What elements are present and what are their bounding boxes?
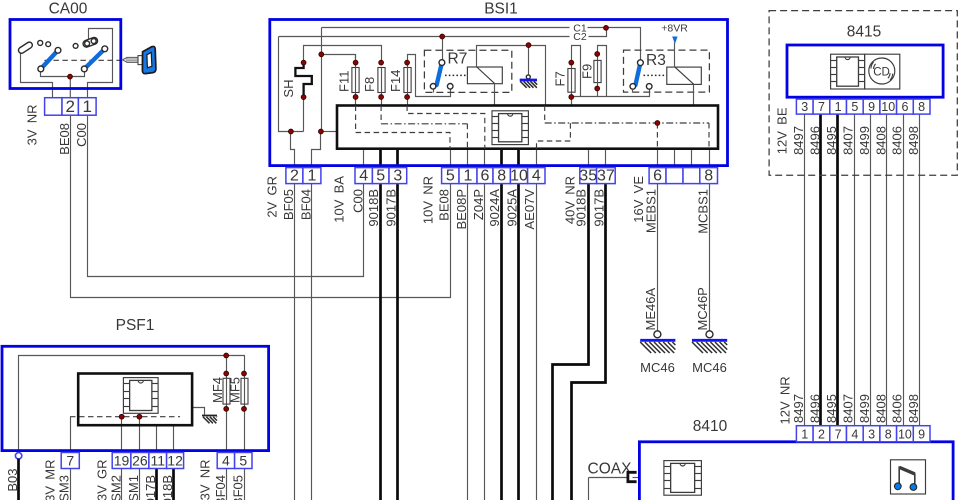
wire 8496 (8415 to 8410) — [819, 115, 822, 426]
wire BE08P (BSI1 pin1 down) — [467, 149, 469, 500]
junction MF4 tap — [224, 353, 229, 358]
CA00 key dashed axis line — [44, 59, 122, 61]
wire 8498 (8415 to 8410) — [919, 115, 921, 426]
svg-text:5: 5 — [851, 100, 858, 114]
svg-text:R7: R7 — [448, 51, 468, 68]
wire PSF1 pin7 feed — [70, 417, 72, 453]
svg-text:C2: C2 — [573, 31, 587, 43]
junction F8 top — [379, 60, 384, 65]
junction PSF1 bus pin26 — [137, 414, 142, 419]
CA00 contact circle c — [73, 44, 78, 49]
junction F9 top — [595, 52, 600, 57]
svg-text:8497: 8497 — [791, 394, 806, 423]
svg-text:10V NR: 10V NR — [421, 176, 436, 224]
svg-text:8407: 8407 — [840, 394, 855, 423]
CA00 contact circle a — [38, 40, 43, 45]
wire BF04 below PSF1 — [226, 469, 228, 500]
wire F7 bottom to module — [571, 97, 573, 106]
ground hatching inside BSI1 — [520, 81, 537, 88]
fuse MF4 — [223, 378, 230, 404]
internal dash-dot bus (right half) — [544, 106, 546, 124]
wire 9017B (BSI1 pin3 down) — [396, 149, 399, 500]
junction SH top — [301, 60, 306, 65]
junction MF4 top — [224, 371, 229, 376]
wire 9018B below PSF1 — [172, 469, 175, 500]
wire MF4 feed — [226, 356, 228, 379]
svg-text:F11: F11 — [337, 71, 352, 92]
wire 8407 (8415 to 8410) — [854, 115, 856, 426]
CA00 pin row (empty,2,1) — [45, 97, 97, 116]
8415 dashed outline box — [769, 11, 957, 176]
svg-text:1: 1 — [464, 167, 473, 184]
svg-text:8410: 8410 — [693, 418, 728, 435]
svg-text:8496: 8496 — [807, 126, 822, 155]
relay R3 dashed box — [624, 50, 710, 92]
svg-text:9024A: 9024A — [487, 189, 502, 227]
svg-text:4: 4 — [222, 452, 230, 468]
wire R7 NC contact stub — [433, 90, 435, 93]
svg-text:MC46P: MC46P — [695, 287, 710, 330]
svg-text:11: 11 — [150, 452, 165, 468]
svg-text:8406: 8406 — [890, 394, 905, 423]
CA00 internal wire (contact to empty pin) — [21, 53, 53, 98]
junction C1 node — [604, 26, 609, 31]
IC chip symbol inside 8415 — [831, 54, 865, 89]
svg-text:BSI1: BSI1 — [484, 1, 518, 18]
BSI1 pin row group5 (6,_,_,8) — [649, 167, 717, 184]
wire BE08 stub (BSI1 pin5) — [450, 149, 452, 184]
wire stub BSI1 empty pin a — [674, 149, 676, 184]
wire BE08 (CA00 pin2 to BSI1 pin5) — [71, 116, 451, 298]
wire PSF1 supply rail — [19, 356, 245, 453]
svg-text:3V MR: 3V MR — [43, 460, 58, 500]
wire F9 top stub — [597, 55, 599, 61]
wire junction to inner module — [321, 131, 337, 133]
wire 9024A (BSI1 pin8 down) — [500, 149, 503, 500]
svg-text:5: 5 — [376, 167, 385, 184]
junction internal bus MEBS1 — [655, 121, 660, 126]
svg-text:10V BA: 10V BA — [332, 176, 347, 223]
fuse F14 — [404, 68, 411, 93]
svg-text:C00: C00 — [74, 123, 89, 147]
svg-text:12V BE: 12V BE — [775, 107, 790, 154]
junction SH bottom — [301, 95, 306, 100]
wire C00 stub (BSI1 pin4) — [363, 149, 365, 168]
svg-text:BF04: BF04 — [298, 189, 313, 220]
wire R3 NC contact stub — [632, 90, 634, 93]
junction PSF1 bus pin19 — [119, 414, 124, 419]
ground symbol inside PSF1 — [202, 415, 217, 417]
svg-text:+8VR: +8VR — [661, 22, 688, 34]
svg-text:F7: F7 — [553, 71, 568, 86]
svg-text:8: 8 — [704, 167, 713, 184]
shunt SH — [295, 63, 311, 98]
svg-text:8498: 8498 — [906, 394, 921, 423]
wire internal ground drop (BSI1) — [528, 46, 530, 75]
internal dashed path (F14 to pin6 Z04P) — [407, 106, 485, 149]
wire BSI1 pin2 feed — [291, 132, 295, 169]
CA00 internal wire (right contact loop to pin 1) — [88, 29, 113, 98]
svg-text:1: 1 — [801, 428, 808, 442]
svg-text:8415: 8415 — [847, 24, 881, 41]
svg-text:CD: CD — [873, 67, 890, 79]
loudspeaker music-note symbol — [891, 460, 926, 494]
wire PSF1 pin19 feed — [121, 417, 123, 453]
wire 8499 (8415 to 8410) — [870, 115, 872, 426]
ground MC46 right hatching — [692, 342, 727, 353]
svg-text:7: 7 — [835, 428, 842, 442]
svg-text:9: 9 — [868, 100, 875, 114]
ground hatching inside PSF1 — [203, 417, 217, 424]
junction BF04 tap — [319, 129, 324, 134]
svg-text:6: 6 — [901, 100, 908, 114]
wire 9025A (BSI1 pin10 down) — [517, 149, 520, 500]
wire 9017B stub (BSI1 pin37) — [605, 149, 607, 169]
relay R3 switch lever — [630, 60, 652, 89]
component 8415 (radio head unit) group — [769, 11, 957, 176]
svg-text:B03: B03 — [5, 469, 20, 492]
CA00 contact circle b — [46, 42, 51, 47]
svg-text:8408: 8408 — [873, 126, 888, 155]
wire C1 to F11 top — [322, 55, 356, 63]
wire Z04P (BSI1 pin6 down) — [484, 149, 486, 500]
wire 9018B (BSI1 pin5 down) — [379, 149, 382, 500]
wire MF4 output to pin 4 — [226, 405, 228, 453]
wire 8497 (8415 to 8410) — [804, 115, 806, 426]
wire R3 coil output — [693, 85, 695, 106]
svg-text:12: 12 — [167, 452, 183, 468]
BSI1 blue outline box — [270, 20, 728, 166]
wire F11 bottom to module — [355, 93, 357, 106]
svg-text:8497: 8497 — [791, 126, 806, 155]
8410 blue outline box — [639, 442, 953, 500]
coax connector symbol — [628, 472, 637, 481]
svg-text:9018B: 9018B — [160, 475, 175, 500]
wire 9018B (BSI1 pin35 staircase down) — [553, 169, 589, 500]
PSF1 pin row (4,5) — [217, 452, 252, 468]
IC chip symbol inside BSI1 — [492, 111, 528, 145]
svg-text:ME46A: ME46A — [643, 288, 658, 331]
IC chip symbol inside PSF1 — [123, 378, 158, 414]
IC chip symbol inside 8410 — [664, 461, 702, 496]
wire F7 staple — [572, 46, 581, 97]
svg-text:6: 6 — [481, 167, 490, 184]
svg-text:6: 6 — [653, 167, 662, 184]
CD player symbol — [865, 54, 900, 89]
relay R7 coil — [467, 67, 502, 84]
wire AE07V (BSI1 pin4 down) — [536, 149, 538, 500]
BSI1 internal module box — [337, 106, 718, 149]
wire F14 bottom to module — [407, 93, 409, 106]
wire 8406 (8415 to 8410) — [903, 115, 905, 426]
wire F7 body stubs — [571, 63, 573, 69]
svg-text:3: 3 — [868, 428, 875, 442]
svg-text:MC46: MC46 — [692, 360, 727, 375]
svg-text:19: 19 — [114, 452, 130, 468]
wire 9018B stub (BSI1 pin35) — [588, 149, 590, 169]
junction CA00 lever common — [68, 74, 73, 79]
PSF1 blue outline box — [2, 346, 269, 450]
BSI1 pin row group1 (2,1) — [286, 167, 321, 184]
fuse MF5 — [241, 378, 248, 404]
svg-text:SH: SH — [281, 80, 296, 98]
svg-text:8: 8 — [885, 428, 892, 442]
wire F7 bottom to rail — [571, 93, 573, 97]
svg-text:C00: C00 — [350, 189, 365, 213]
svg-text:AE07V: AE07V — [522, 189, 537, 230]
wire MF5 output to pin 5 — [244, 405, 246, 453]
relay R7 switch lever — [430, 60, 453, 89]
svg-text:BE08: BE08 — [57, 123, 72, 155]
svg-text:BF05: BF05 — [231, 475, 246, 500]
wire coax drop — [588, 478, 590, 500]
svg-text:CA00: CA00 — [49, 1, 88, 18]
svg-text:PSF1: PSF1 — [116, 317, 155, 334]
svg-text:8407: 8407 — [840, 126, 855, 155]
svg-text:MF4: MF4 — [210, 377, 225, 403]
svg-text:2V GR: 2V GR — [265, 176, 280, 218]
component CA00 (ignition switch) group — [10, 1, 156, 155]
svg-text:8408: 8408 — [873, 394, 888, 423]
svg-text:10: 10 — [898, 428, 912, 442]
PSF1 internal module box — [78, 374, 192, 426]
wire MCBS1 (BSI1 pin8 to ground MC46) — [709, 149, 711, 331]
svg-text:8499: 8499 — [857, 126, 872, 155]
wire 9017B (BSI1 pin37 staircase down) — [572, 169, 606, 500]
junction F11 top — [353, 60, 358, 65]
svg-text:8406: 8406 — [890, 126, 905, 155]
svg-text:4: 4 — [532, 167, 541, 184]
wire +8VR to R3 coil — [674, 43, 676, 68]
junction C1/F11 — [319, 52, 324, 57]
svg-text:8: 8 — [918, 100, 925, 114]
ground MC46 right connector circle — [706, 331, 713, 338]
wire C2 right segment to C1 junction — [589, 28, 607, 37]
svg-text:35: 35 — [579, 167, 597, 184]
svg-text:1: 1 — [83, 97, 92, 116]
wire stub BSI1 empty pin b — [691, 149, 693, 184]
CA00 switch contact segment (left) — [17, 41, 33, 54]
svg-text:Z04P: Z04P — [471, 189, 486, 220]
PSF1 internal dashed bus — [70, 416, 180, 418]
wire C2 branch down-left — [279, 37, 304, 132]
wire F9 bottom stub — [597, 83, 599, 97]
svg-text:3V GR: 3V GR — [95, 460, 110, 500]
wire BF05 (BSI1 pin2 down) — [294, 168, 296, 500]
svg-text:7: 7 — [818, 100, 825, 114]
svg-text:8: 8 — [497, 167, 506, 184]
svg-text:MC46: MC46 — [640, 360, 675, 375]
svg-text:3: 3 — [801, 100, 808, 114]
svg-text:F9: F9 — [580, 64, 595, 79]
CA00 switch contact segment (right) — [82, 37, 98, 49]
wire F8 bottom to module — [381, 93, 383, 106]
wire 8408 (8415 to 8410) — [886, 115, 888, 426]
svg-text:BF04: BF04 — [213, 475, 228, 500]
junction F11 bottom — [353, 95, 358, 100]
junction MF5 top — [242, 371, 247, 376]
wire PSF1 pin26 feed — [139, 417, 141, 453]
junction F14 top — [405, 60, 410, 65]
svg-text:SM2: SM2 — [108, 475, 123, 500]
wire C1 rail (BSI1 top) — [322, 27, 570, 29]
wire R7 pivot feed — [442, 37, 444, 61]
wire R7 coil output — [494, 84, 496, 106]
component PSF1 (engine fusebox) group — [2, 317, 269, 500]
relay R3 armature dotted link — [644, 74, 667, 76]
svg-text:BE08P: BE08P — [454, 189, 469, 229]
junction F9 bottom — [595, 86, 600, 91]
wire BF05 below PSF1 — [244, 469, 246, 500]
fuse F9 — [594, 60, 601, 82]
wire C2 rail (BSI1 top) — [279, 36, 570, 38]
svg-text:3V NR: 3V NR — [25, 105, 40, 146]
wire PSF1 pin11 feed — [156, 426, 158, 453]
svg-text:9: 9 — [918, 428, 925, 442]
ground MC46 left connector circle — [654, 331, 661, 338]
svg-text:MEBS1: MEBS1 — [643, 189, 658, 233]
PSF1 pin row (7) — [61, 452, 79, 468]
svg-text:4: 4 — [359, 167, 368, 184]
svg-text:5: 5 — [239, 452, 247, 468]
svg-text:9018B: 9018B — [366, 189, 381, 227]
8415 blue outline box — [787, 45, 943, 97]
wire coax inner — [633, 477, 640, 479]
fuse F8 — [378, 68, 385, 93]
svg-text:BE08: BE08 — [437, 189, 452, 221]
wire SM1 below PSF1 — [139, 469, 141, 500]
svg-text:5: 5 — [446, 167, 455, 184]
ground MC46 (left) group — [640, 331, 675, 341]
svg-text:4: 4 — [851, 428, 858, 442]
wire SH bottom leg — [303, 98, 305, 132]
svg-text:1: 1 — [835, 100, 842, 114]
wire PSF1 pin12 feed — [173, 426, 175, 453]
svg-text:SM3: SM3 — [57, 475, 72, 500]
relay R7 dashed box — [424, 50, 511, 92]
svg-text:2: 2 — [65, 97, 74, 116]
BSI1 pin row group2 (4,5,3) — [355, 167, 407, 184]
wire BSI1 pin1 feed — [312, 132, 321, 169]
wire F14 top stub — [407, 63, 409, 68]
svg-text:1: 1 — [307, 167, 316, 184]
svg-text:9025A: 9025A — [505, 189, 520, 227]
svg-text:SM1: SM1 — [126, 475, 141, 500]
svg-text:MF5: MF5 — [228, 377, 243, 403]
wire R7 coil feed — [477, 46, 546, 106]
8410 pin row (1,2,7,4,3,8,10,9) — [796, 426, 930, 442]
wire SM2 below PSF1 — [121, 469, 123, 500]
internal dashed path (pin4 AE07V) — [537, 123, 571, 149]
wire BF04 (BSI1 pin1 down) — [311, 168, 313, 500]
wire 8495 (8415 to 8410) — [836, 115, 839, 426]
junction BF05 tap — [289, 129, 294, 134]
svg-text:8496: 8496 — [807, 394, 822, 423]
svg-text:26: 26 — [132, 452, 148, 468]
svg-text:R3: R3 — [646, 52, 666, 69]
wire SM3 below PSF1 — [70, 469, 72, 500]
wire B03 (thick to bottom) — [17, 459, 20, 500]
CA00 key symbol — [123, 46, 156, 73]
ground MC46 right bar — [692, 339, 727, 342]
junction F14 bottom — [405, 95, 410, 100]
fuse F7 — [568, 69, 575, 93]
8415 pin row (3,7,1,5,9,10,6,8) — [796, 99, 930, 114]
internal dash-dot path (F8 to pin1 BE08P) — [380, 106, 382, 124]
svg-text:8495: 8495 — [824, 394, 839, 423]
wire coax lead — [589, 477, 628, 479]
wire 9017B below PSF1 — [155, 469, 158, 500]
svg-text:8498: 8498 — [906, 126, 921, 155]
BSI1 pin row group3 (5,1,6,8,10,4) — [442, 167, 545, 184]
svg-text:2: 2 — [290, 167, 299, 184]
svg-text:8499: 8499 — [857, 394, 872, 423]
wire C1 rail right segment — [588, 28, 641, 61]
junction F8 bottom — [379, 95, 384, 100]
ground MC46 (right) group — [692, 331, 727, 341]
svg-text:10: 10 — [510, 167, 528, 184]
wire C1 branch down-left — [321, 28, 323, 132]
supply +8VR arrow — [672, 37, 677, 45]
svg-text:F14: F14 — [388, 70, 403, 92]
svg-text:9017B: 9017B — [591, 189, 606, 227]
svg-text:MCBS1: MCBS1 — [696, 189, 711, 234]
fuse F11 — [352, 68, 359, 93]
svg-text:F8: F8 — [362, 77, 377, 92]
CA00 internal wire (lever commons to pin 2) — [41, 72, 85, 77]
svg-text:7: 7 — [66, 452, 74, 468]
junction MF4 bottom — [224, 407, 229, 412]
ground MC46 left bar — [640, 339, 675, 342]
CA00 blue outline box — [10, 20, 121, 89]
wire SH top to F8 top — [304, 46, 382, 63]
svg-text:3V NR: 3V NR — [198, 460, 213, 500]
svg-text:9017B: 9017B — [383, 189, 398, 227]
wire bottom rail to R3 contact — [572, 90, 650, 97]
component 8410 (amplifier) group — [588, 376, 954, 500]
relay R7 armature dotted link — [445, 74, 467, 76]
ground symbol inside BSI1 — [520, 75, 537, 80]
svg-text:9017B: 9017B — [143, 475, 158, 500]
wire F9 staple — [598, 46, 607, 97]
svg-text:3: 3 — [393, 167, 402, 184]
BSI1 pin row group4 (35,37) — [579, 167, 615, 184]
junction R7 coil/ground rail — [526, 43, 531, 48]
ground MC46 left hatching — [640, 342, 675, 353]
wire F11 top stub — [355, 55, 357, 68]
junction MF5 bottom — [242, 407, 247, 412]
connector circle B03 — [15, 453, 21, 459]
relay R3 coil — [667, 67, 702, 84]
junction F7 bottom — [569, 95, 574, 100]
svg-text:9018B: 9018B — [574, 189, 589, 227]
junction R7 pivot tap on C2 rail — [440, 34, 445, 39]
internal dashed path (F11 to pin5 BE08) — [356, 106, 450, 149]
junction F7 top — [569, 60, 574, 65]
CA00 switch lever (right) — [81, 49, 104, 72]
svg-text:37: 37 — [597, 167, 615, 184]
svg-text:2: 2 — [818, 428, 825, 442]
PSF1 pin row (19,26,11,12) — [112, 452, 183, 468]
wire C00 (CA00 pin1 to BSI1 pin4) — [88, 116, 364, 277]
CA00 switch lever (left) — [38, 50, 58, 72]
wire F14 top staple to R7 contact — [408, 55, 451, 97]
component BSI1 (built-in systems interface) group — [265, 1, 728, 234]
svg-text:10: 10 — [881, 100, 895, 114]
svg-text:8495: 8495 — [824, 126, 839, 155]
wire MEBS1 (BSI1 pin6 to ground MC46) — [657, 149, 659, 331]
wire PSF1 module ground lead — [193, 408, 205, 415]
